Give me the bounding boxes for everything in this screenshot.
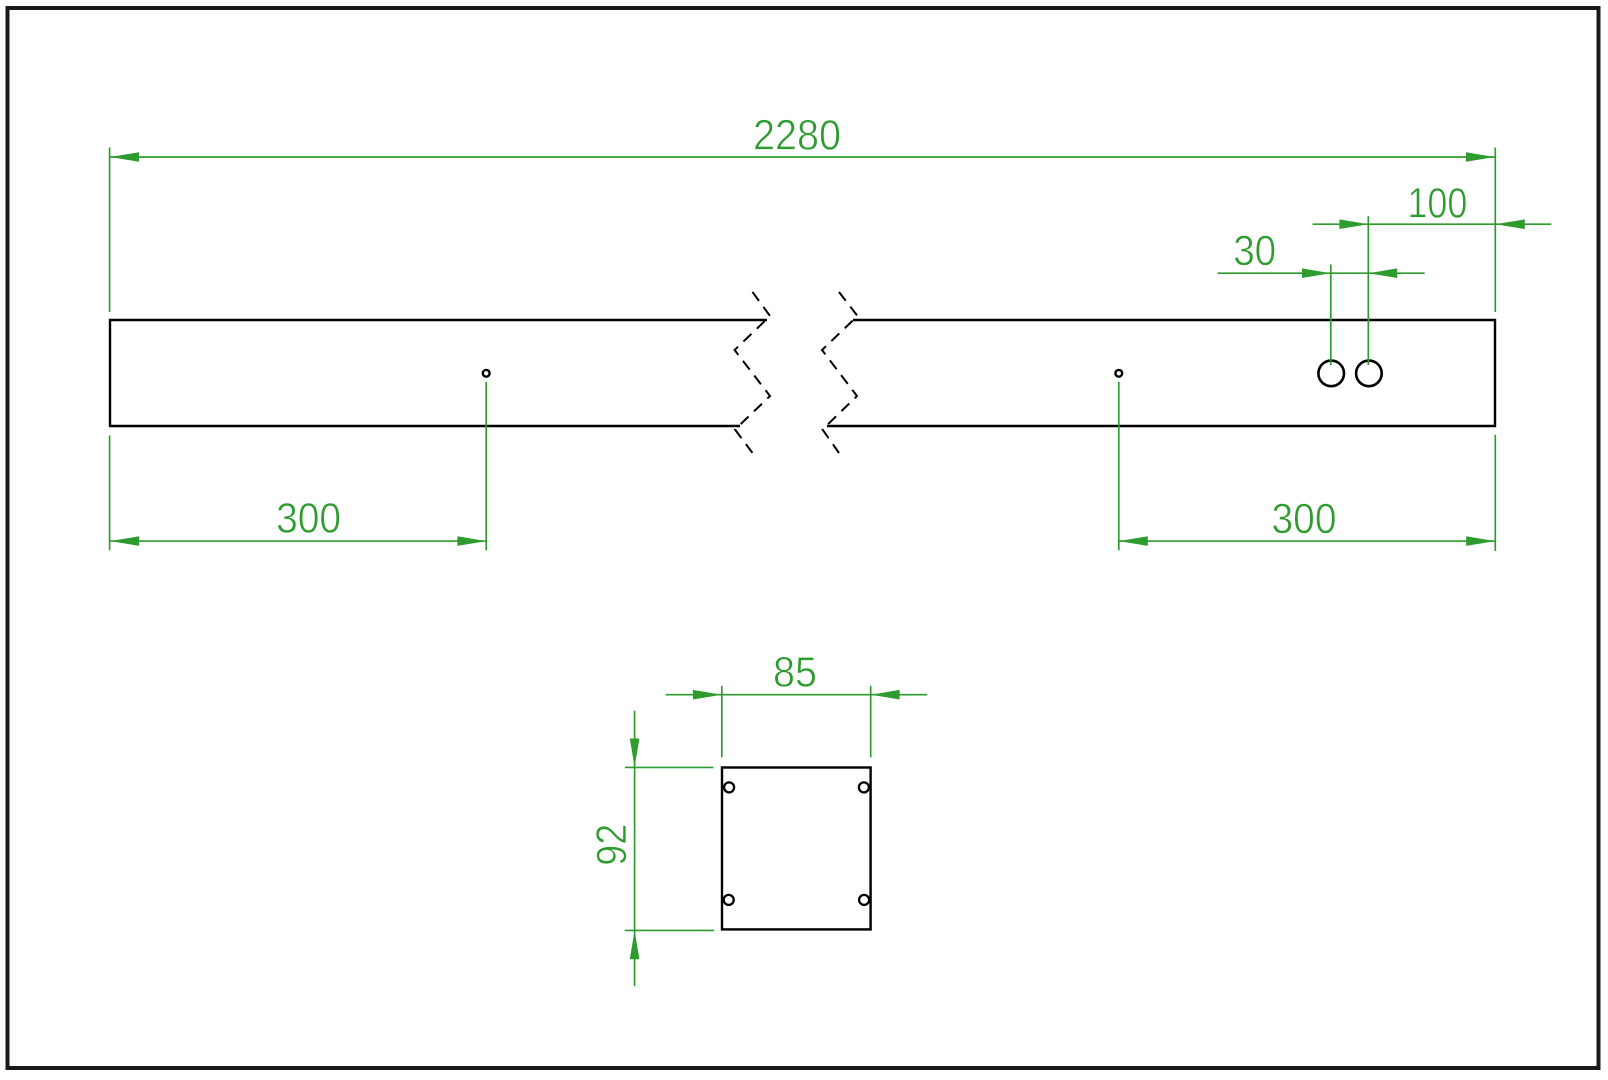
- dimension 2280: [110, 148, 1496, 313]
- dimension 30: [1218, 264, 1425, 365]
- bar left segment outline: [110, 320, 767, 426]
- svg-text:92: 92: [588, 824, 636, 866]
- bar right segment outline: [827, 320, 1495, 426]
- cross-section square: [722, 768, 871, 930]
- svg-text:100: 100: [1407, 179, 1467, 227]
- dimension 85: [666, 686, 927, 758]
- corner hole BR: [859, 895, 869, 905]
- dimension 100: [1313, 216, 1552, 365]
- break line left zigzag: [735, 292, 770, 453]
- svg-text:300: 300: [1272, 495, 1337, 543]
- break line right zigzag: [822, 292, 858, 453]
- hole big 1: [1318, 361, 1344, 387]
- dimension 300 right: [1119, 382, 1496, 551]
- hole big 2: [1356, 361, 1382, 387]
- svg-text:300: 300: [276, 495, 341, 543]
- corner hole BL: [724, 895, 734, 905]
- hole left small: [483, 370, 490, 377]
- dimension 92: [625, 711, 715, 987]
- svg-text:30: 30: [1233, 227, 1276, 275]
- dimension 300 left: [110, 382, 487, 550]
- svg-text:85: 85: [773, 649, 817, 697]
- corner hole TR: [859, 782, 869, 792]
- svg-text:2280: 2280: [753, 111, 841, 159]
- corner hole TL: [724, 782, 734, 792]
- hole right small: [1115, 370, 1122, 377]
